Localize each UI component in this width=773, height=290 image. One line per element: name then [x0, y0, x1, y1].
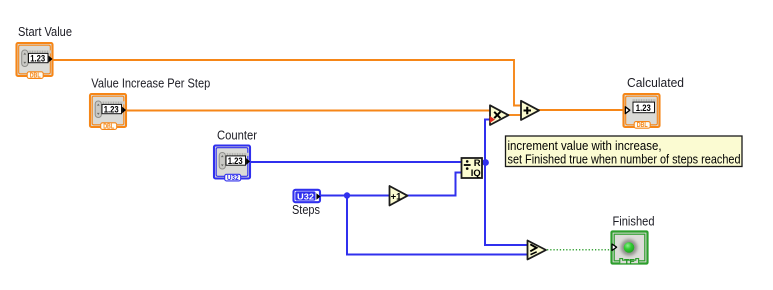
wire Increment to Quotient-Remainder y input (blue): [407, 173, 462, 196]
svg-text:Counter: Counter: [217, 128, 257, 142]
wire R output to vertical bus (blue): [482, 162, 485, 164]
svg-text:DBL: DBL: [637, 122, 649, 129]
wire junction Steps down to GreaterEqual bottom input (blue): [347, 196, 528, 255]
control Counter (U32 numeric control): [214, 146, 250, 182]
control Start Value (DBL numeric control): [17, 43, 53, 79]
comment box: [506, 136, 743, 167]
wire Add to Calculated (orange): [538, 109, 624, 111]
svg-text:U32: U32: [297, 192, 314, 202]
junction dot at R output: [482, 159, 489, 166]
control Value Increase Per Step (DBL numeric control): [90, 94, 126, 130]
svg-text:1.23: 1.23: [228, 156, 243, 166]
svg-text:1.23: 1.23: [636, 103, 651, 113]
wire GreaterEqual to Finished (green dotted boolean): [547, 249, 611, 251]
indicator Finished (boolean LED): [612, 232, 648, 267]
svg-text:IQ: IQ: [471, 168, 481, 178]
svg-text:1.23: 1.23: [104, 104, 119, 114]
junction dot at Steps wire: [344, 192, 350, 198]
svg-text:U32: U32: [227, 175, 239, 182]
constant Steps (U32): [294, 190, 321, 202]
svg-text:Calculated: Calculated: [627, 76, 684, 90]
svg-text:set Finished true when number: set Finished true when number of steps r…: [508, 153, 741, 167]
svg-text:Value Increase Per Step: Value Increase Per Step: [91, 77, 210, 91]
indicator Calculated (DBL numeric indicator): [624, 94, 660, 129]
multiply node: [490, 105, 509, 125]
quotient-remainder node R/IQ: [462, 158, 483, 178]
svg-text:Finished: Finished: [613, 215, 655, 229]
greater-or-equal node: [528, 241, 547, 260]
wire Multiply to Add (orange): [507, 114, 521, 116]
svg-text:+1: +1: [391, 191, 403, 202]
wire Counter to Quotient-Remainder x input (blue): [250, 161, 462, 163]
svg-text:increment value with increase,: increment value with increase,: [508, 139, 662, 153]
wire vertical bus down to GreaterEqual top input (blue): [485, 163, 528, 246]
svg-text:DBL: DBL: [30, 72, 42, 79]
svg-text:DBL: DBL: [103, 123, 115, 130]
increment node +1: [390, 186, 408, 206]
wire Start Value to Add (orange): [53, 60, 521, 106]
svg-text:TF: TF: [624, 257, 635, 266]
wire Value Increase Per Step to Multiply (orange): [126, 110, 490, 112]
wire Steps to Increment (blue): [320, 195, 390, 197]
add node: [521, 101, 539, 120]
coercion dot at multiply bottom input: [490, 116, 495, 123]
svg-text:1.23: 1.23: [30, 53, 45, 63]
svg-text:Steps: Steps: [292, 203, 320, 217]
wire vertical bus up to Multiply bottom input (blue): [485, 120, 490, 163]
svg-text:Start Value: Start Value: [18, 25, 72, 39]
